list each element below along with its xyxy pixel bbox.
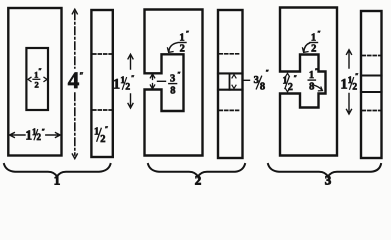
svg-text:″: ″ — [266, 69, 270, 76]
fig1 face board — [8, 8, 61, 156]
svg-text:8: 8 — [170, 86, 175, 97]
fig2 edge slot back wall — [229, 73, 231, 89]
fig2 edge board — [218, 10, 243, 158]
fig number 3 — [325, 172, 332, 187]
fig2 edge slot bottom line — [218, 89, 243, 91]
fig3 leader to stem top — [303, 43, 310, 52]
svg-text:2: 2 — [288, 82, 293, 93]
fig2 label 1/2in top — [179, 30, 189, 54]
fig2 edge label 3/8in — [254, 69, 270, 93]
fig number 1 — [54, 172, 61, 187]
svg-text:1: 1 — [311, 32, 316, 43]
svg-text:8: 8 — [260, 82, 265, 93]
svg-text:4: 4 — [68, 68, 80, 93]
svg-text:″: ″ — [131, 75, 135, 82]
svg-text:″: ″ — [355, 73, 359, 80]
svg-text:3: 3 — [170, 74, 175, 85]
fig1 edge dimension 1 1/2in — [128, 54, 133, 108]
fig1 mortise — [26, 48, 48, 110]
brace under fig2 — [148, 164, 245, 177]
svg-text:″: ″ — [38, 68, 42, 75]
svg-text:2: 2 — [34, 80, 38, 90]
fig3 label 1/2in top — [311, 30, 321, 54]
svg-text:1: 1 — [113, 77, 120, 93]
svg-text:1: 1 — [179, 32, 184, 43]
fig3 1/8 curved arrow to arm — [314, 85, 323, 91]
fig1 mortise label 1/2in — [34, 68, 42, 90]
fig1 edge label 1/2in — [94, 126, 108, 146]
fig3 edge board — [361, 11, 382, 158]
svg-text:2: 2 — [195, 172, 202, 185]
svg-text:″: ″ — [79, 71, 83, 80]
fig1 width label 1 1/2in — [25, 127, 45, 143]
fig3 edge slot bottom line — [361, 91, 382, 93]
brace under fig3 — [268, 164, 381, 177]
fig3 face board with cross mortise cutout — [280, 8, 337, 156]
svg-text:2: 2 — [125, 83, 130, 93]
svg-text:2: 2 — [352, 83, 357, 93]
svg-text:″: ″ — [177, 71, 181, 78]
fig3 dimension 1 1/2in between views — [347, 50, 352, 114]
fig2 3/8 dash — [158, 80, 166, 82]
svg-text:2: 2 — [100, 134, 105, 145]
fig3 edge hidden mortise top dotted — [363, 55, 381, 57]
svg-text:2: 2 — [180, 43, 185, 54]
fig1 edge board — [91, 10, 112, 157]
svg-text:2: 2 — [311, 43, 316, 54]
fig1 mortise width arrows — [28, 77, 47, 81]
fig number 2 — [195, 172, 202, 187]
svg-text:3: 3 — [325, 172, 332, 185]
fig1 width dimension 1 1/2in — [10, 133, 61, 138]
fig1 length dimension 4in dash-dot line — [74, 12, 76, 155]
fig3 edge hidden mortise bottom dotted — [363, 110, 381, 112]
fig2 label 3/8in — [170, 71, 181, 97]
fig3 slot height arrows — [286, 73, 290, 92]
fig1 edge hidden mortise top dotted — [93, 53, 112, 55]
svg-text:″: ″ — [317, 30, 321, 37]
fig2 leader to mortise top — [168, 43, 178, 53]
fig3 side label 1 1/2in — [340, 73, 358, 93]
svg-text:″: ″ — [186, 30, 190, 37]
fig3 edge slot top line — [361, 74, 382, 76]
svg-text:1: 1 — [340, 77, 347, 93]
fig2 edge hidden mortise bottom dotted — [220, 109, 242, 111]
svg-text:″: ″ — [42, 128, 46, 135]
fig1 edge hidden mortise bottom dotted — [93, 109, 112, 111]
svg-text:8: 8 — [309, 82, 314, 93]
fig2 edge hidden mortise top dotted — [220, 53, 242, 55]
svg-text:1: 1 — [54, 172, 61, 185]
svg-text:″: ″ — [294, 75, 298, 82]
fig2 edge slot top line — [218, 72, 243, 74]
brace under fig1 — [4, 164, 111, 177]
fig2 edge leader dash — [244, 79, 250, 81]
svg-text:″: ″ — [315, 68, 319, 75]
fig1 edge side label 1 1/2in — [113, 75, 135, 93]
fig3 label 1/8in — [309, 68, 318, 93]
fig2 edge slot arrows — [232, 75, 236, 89]
svg-text:″: ″ — [105, 126, 109, 133]
svg-text:1: 1 — [309, 70, 314, 81]
fig2 face board with slot and mortise cutout — [145, 10, 203, 156]
fig2 slot height arrows 3/8 — [150, 74, 154, 89]
fig3 slot label 1/2in — [283, 75, 298, 93]
fig1 4in label — [68, 68, 84, 93]
